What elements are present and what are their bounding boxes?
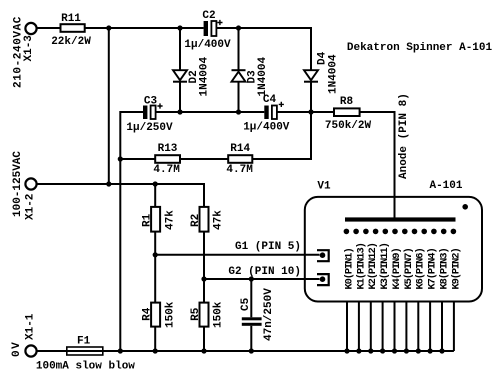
wire R2 to R5 through G2 node (203, 232, 205, 303)
svg-text:R14: R14 (230, 143, 250, 155)
fuse F1 (67, 347, 103, 355)
svg-text:1N4004: 1N4004 (257, 56, 269, 96)
wire X1-3 to R11 (37, 27, 61, 29)
svg-text:R5: R5 (190, 307, 202, 321)
terminal X1-2 (25, 178, 36, 189)
wire D3 cathode lead top (238, 28, 240, 70)
wire R11 to C2 (85, 27, 204, 29)
svg-text:0V: 0V (11, 341, 23, 357)
wire cathode K7 (429, 302, 431, 352)
svg-text:F1: F1 (77, 335, 91, 347)
svg-text:47k: 47k (212, 210, 224, 230)
svg-text:100-125VAC: 100-125VAC (12, 151, 24, 217)
junction 0V / K4 (392, 348, 397, 353)
svg-text:A-101: A-101 (429, 180, 462, 192)
wire riser R11 node down to X1-2 line (108, 27, 110, 184)
junction 0V / R5 (201, 348, 206, 353)
svg-text:4.7M: 4.7M (153, 164, 180, 176)
wire D4 cathode lead (310, 82, 312, 112)
cathode dot row (344, 229, 457, 235)
capacitor C5 (242, 317, 262, 326)
junction C3C4 rail / D4 / R13R14 riser (308, 109, 313, 114)
capacitor C2 (204, 20, 223, 36)
junction 0V / C3 feed (118, 348, 123, 353)
wire corner to C3 (120, 111, 143, 113)
svg-text:100mA slow blow: 100mA slow blow (36, 360, 135, 372)
resistor R1 (151, 207, 160, 232)
diode D3 (232, 70, 246, 82)
junction C3C4 rail / D3 (236, 109, 241, 114)
svg-text:47k: 47k (164, 210, 176, 230)
resistor R11 (61, 24, 85, 32)
resistor R5 (200, 303, 209, 327)
svg-text:C2: C2 (202, 10, 215, 22)
junction top wire / D2 (177, 25, 182, 30)
svg-text:1µ/250V: 1µ/250V (126, 122, 173, 134)
wire cathode K4 (394, 302, 396, 352)
G2 pin bracket (317, 274, 329, 285)
diode D4 (304, 70, 318, 82)
wire C3 to C4 (156, 111, 265, 113)
resistor R2 (200, 207, 209, 232)
wire C3 left node down to 0V rail (119, 111, 121, 351)
wire G2 node to C5 (250, 279, 252, 317)
svg-text:1µ/400V: 1µ/400V (243, 122, 290, 134)
svg-text:K5(PIN7): K5(PIN7) (403, 248, 415, 289)
junction G2 line / C5 (249, 276, 254, 281)
junction G1 line / R1-R4 (153, 252, 158, 257)
wire C4 to R8 (277, 111, 334, 113)
anode bar (345, 217, 456, 221)
wire D3 anode lead bottom (238, 82, 240, 112)
wire cathode K8 (441, 302, 443, 352)
wire 0V rail (37, 350, 454, 352)
svg-text:150k: 150k (164, 301, 176, 328)
svg-text:1µ/400V: 1µ/400V (184, 39, 231, 51)
svg-text:1N4004: 1N4004 (328, 54, 340, 94)
svg-text:C3: C3 (144, 95, 158, 107)
wire cathode K6 (417, 302, 419, 352)
svg-text:22k/2W: 22k/2W (51, 36, 91, 48)
resistor R13 (155, 155, 180, 163)
wire X1-2 line (37, 183, 204, 185)
svg-text:K6(PIN6): K6(PIN6) (415, 248, 427, 289)
svg-text:47n/250V: 47n/250V (263, 288, 275, 341)
wire R4 to 0V rail (154, 327, 156, 351)
wire R8 to anode corner (360, 111, 395, 113)
svg-text:R11: R11 (61, 13, 81, 25)
diode D2 (173, 70, 187, 82)
junction 0V / R4 (153, 348, 158, 353)
svg-text:R2: R2 (190, 214, 202, 227)
svg-text:K0(PIN1): K0(PIN1) (343, 248, 355, 289)
capacitor C3 (143, 103, 163, 119)
wire X1-2 corner to R2 (203, 183, 205, 207)
terminal X1-3 (25, 23, 36, 34)
wire G2 line (204, 278, 320, 280)
wire C2 to corner (216, 27, 311, 29)
dekatron tube V1 box (305, 197, 482, 302)
wire anode riser into V1 (394, 111, 396, 219)
svg-text:750k/2W: 750k/2W (325, 120, 372, 132)
svg-text:1N4004: 1N4004 (199, 56, 211, 96)
junction X1-2 / R1 (153, 181, 158, 186)
svg-text:K4(PIN9): K4(PIN9) (391, 248, 403, 289)
svg-text:K7(PIN4): K7(PIN4) (427, 248, 439, 289)
pin 1 index dot (462, 204, 468, 210)
wire cathode K0 (346, 302, 348, 352)
wire R1 to R4 through G1 node (154, 232, 156, 303)
svg-text:R8: R8 (340, 96, 354, 108)
svg-text:Anode (PIN 8): Anode (PIN 8) (398, 93, 410, 179)
junction G2 line / R2-R5 (201, 276, 206, 281)
svg-text:K2(PIN12): K2(PIN12) (367, 243, 379, 289)
wire riser R14 up to C4 node (310, 112, 312, 160)
wire cathode K3 (382, 302, 384, 352)
junction top wire / left riser (106, 25, 111, 30)
svg-text:Dekatron Spinner A-101: Dekatron Spinner A-101 (347, 42, 493, 54)
junction 0V / K0 (344, 348, 349, 353)
wire D2 anode lead (179, 28, 181, 70)
wire cathode K5 (405, 302, 407, 352)
svg-text:4.7M: 4.7M (226, 164, 253, 176)
wire cathode K9 (453, 302, 455, 352)
svg-text:C5: C5 (240, 297, 252, 311)
svg-text:R1: R1 (142, 213, 154, 227)
svg-text:G2 (PIN 10): G2 (PIN 10) (228, 266, 301, 278)
svg-text:R4: R4 (142, 307, 154, 321)
resistor R8 (334, 108, 360, 116)
terminal X1-1 (25, 345, 36, 356)
junction 0V / C5 (249, 348, 254, 353)
junction 0V / K3 (380, 348, 385, 353)
wire G1 line (155, 254, 319, 256)
svg-text:X1-3: X1-3 (23, 35, 35, 62)
wire C5 to 0V rail (250, 326, 252, 351)
svg-text:X1-2: X1-2 (25, 194, 37, 220)
capacitor C4 (264, 102, 284, 119)
wire R14 to riser (252, 158, 311, 160)
svg-text:R13: R13 (158, 143, 178, 155)
svg-text:150k: 150k (212, 301, 224, 328)
svg-text:G1 (PIN 5): G1 (PIN 5) (235, 241, 301, 253)
wire X1-2 to R1 (154, 184, 156, 207)
junction X1-2 / left riser (106, 181, 111, 186)
svg-text:C4: C4 (263, 94, 277, 106)
junction 0V / K6 (416, 348, 421, 353)
junction 0V / K1 (356, 348, 361, 353)
G1 pin bracket (317, 250, 329, 261)
wire R13 to R14 (180, 158, 228, 160)
resistor R14 (228, 155, 252, 163)
svg-text:X1-1: X1-1 (25, 313, 37, 340)
junction 0V / K8 (439, 348, 444, 353)
junction R13 rail / C3 feed (118, 156, 123, 161)
svg-text:K9(PIN2): K9(PIN2) (450, 248, 462, 289)
svg-text:K3(PIN11): K3(PIN11) (379, 243, 391, 289)
svg-text:V1: V1 (317, 181, 331, 193)
svg-text:K8(PIN3): K8(PIN3) (438, 248, 450, 289)
wire R5 to 0V rail (203, 327, 205, 351)
wire cathode K2 (370, 302, 372, 352)
junction top wire / D3 (236, 25, 241, 30)
junction 0V / K5 (404, 348, 409, 353)
resistor R4 (151, 303, 160, 327)
wire cathode K1 (358, 302, 360, 352)
junction C3C4 rail / D2 (177, 109, 182, 114)
wire top corner down to D4 (310, 27, 312, 70)
wire to R13 (120, 158, 155, 160)
wire D2 cathode lead (179, 82, 181, 112)
junction 0V / K2 (368, 348, 373, 353)
junction 0V / K7 (428, 348, 433, 353)
svg-text:K1(PIN13): K1(PIN13) (355, 243, 367, 289)
